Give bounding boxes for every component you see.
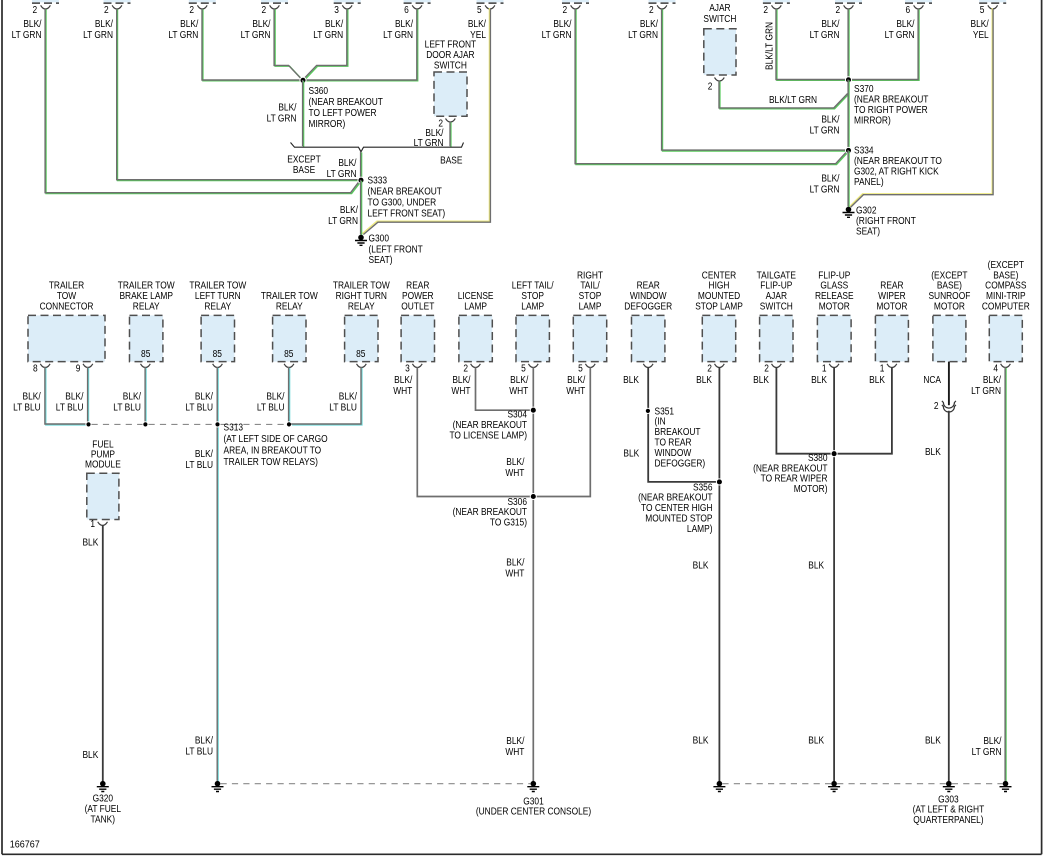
- svg-text:TANK): TANK): [91, 814, 115, 825]
- splice S313 dot d (tow relay + right turn relay): [286, 422, 291, 427]
- svg-text:BLK/: BLK/: [983, 374, 1002, 385]
- svg-text:FLIP-UP: FLIP-UP: [818, 270, 850, 281]
- component REAR POWER OUTLET label: [401, 280, 434, 311]
- svg-text:BLK/: BLK/: [506, 735, 525, 746]
- splice S333 label: [368, 175, 446, 219]
- svg-text:2: 2: [763, 4, 768, 15]
- svg-text:2: 2: [836, 4, 841, 15]
- svg-text:BASE: BASE: [293, 165, 315, 176]
- svg-text:BLK/: BLK/: [195, 735, 214, 746]
- svg-text:DEFOGGER: DEFOGGER: [624, 301, 672, 312]
- svg-text:BLK/: BLK/: [506, 557, 525, 568]
- component REAR WIPER MOTOR box: [875, 315, 908, 361]
- wire label BLK/LT GRN below COMPASS MINI-TRIP COMPUTER: [971, 374, 1001, 396]
- svg-text:MIRROR): MIRROR): [854, 115, 891, 126]
- svg-text:BRAKE LAMP: BRAKE LAMP: [119, 291, 173, 302]
- svg-text:LT BLU: LT BLU: [113, 402, 141, 413]
- svg-text:85: 85: [213, 348, 222, 359]
- svg-text:BLK/: BLK/: [567, 374, 586, 385]
- component FUEL PUMP MODULE label: [85, 439, 121, 470]
- svg-text:2: 2: [104, 4, 109, 15]
- wire BLK/LT BLU from TRAILER TOW BRAKE LAMP RELAY pin85 to splice S313: [144, 367, 147, 423]
- ground symbol for trailer-tow ground chain (G301 left): [212, 781, 224, 792]
- svg-text:(NEAR BREAKOUT: (NEAR BREAKOUT: [453, 507, 528, 518]
- svg-text:BLK/: BLK/: [510, 374, 529, 385]
- svg-text:BLK: BLK: [623, 374, 639, 385]
- svg-text:PANEL): PANEL): [854, 176, 884, 187]
- svg-text:LT BLU: LT BLU: [185, 746, 213, 757]
- wire BLK/LT GRN from top stub pin2 x=575.5 to splice S334: [575, 8, 847, 164]
- svg-text:TAIL/: TAIL/: [580, 280, 600, 291]
- svg-text:(NEAR BREAKOUT: (NEAR BREAKOUT: [453, 419, 528, 430]
- svg-text:FLIP-UP: FLIP-UP: [760, 280, 792, 291]
- svg-text:5: 5: [521, 363, 526, 374]
- svg-text:8: 8: [33, 363, 38, 374]
- svg-text:S306: S306: [507, 496, 527, 507]
- svg-text:3: 3: [334, 4, 339, 15]
- component CENTER HIGH MOUNTED STOP LAMP label: [695, 270, 743, 312]
- svg-text:BLK/: BLK/: [553, 18, 572, 29]
- pin 5 of RIGHT TAIL/ STOP LAMP: [585, 364, 595, 368]
- svg-text:LT GRN: LT GRN: [971, 385, 1001, 396]
- pin 2 of AJAR SWITCH: [715, 78, 725, 82]
- svg-text:BLK: BLK: [693, 560, 709, 571]
- svg-text:(UNDER CENTER CONSOLE): (UNDER CENTER CONSOLE): [476, 806, 591, 817]
- svg-text:S313: S313: [224, 422, 244, 433]
- svg-text:MOTOR: MOTOR: [876, 301, 907, 312]
- wire label BLK/LT BLU on trailer-tow wire x=87.9: [56, 391, 84, 413]
- svg-text:SWITCH: SWITCH: [760, 301, 793, 312]
- wire BLK/LT BLU from TRAILER TOW CONNECTOR pin9 to splice S313: [87, 367, 90, 423]
- wire BLK/WHT from REAR POWER OUTLET pin3 to splice S306: [417, 367, 531, 496]
- wire BLK/LT GRN from top stub pin2 x=117 to splice S333: [117, 8, 360, 180]
- splice S313 dot c (left turn relay): [215, 422, 220, 427]
- svg-text:5: 5: [578, 363, 583, 374]
- wire label BLK/LT GRN for BASE wire: [414, 127, 444, 148]
- svg-text:2: 2: [649, 4, 654, 15]
- component RIGHT TAIL/ STOP LAMP box: [573, 315, 606, 361]
- svg-text:LT BLU: LT BLU: [56, 402, 84, 413]
- pin (unnumbered) of TRAILER TOW RIGHT TURN RELAY: [357, 364, 367, 368]
- ground G301 symbol: [527, 781, 539, 792]
- component TRAILER TOW CONNECTOR box: [28, 315, 105, 361]
- top connector stub x=776.4 (cut-off component): [763, 0, 790, 3]
- top connector stub x=575.5 (cut-off component): [562, 0, 589, 3]
- component TRAILER TOW RIGHT TURN RELAY label: [333, 280, 390, 311]
- svg-text:SEAT): SEAT): [369, 254, 393, 265]
- svg-text:TRAILER TOW: TRAILER TOW: [118, 280, 175, 291]
- svg-text:1: 1: [90, 518, 95, 529]
- component TAILGATE FLIP-UP AJAR SWITCH box: [760, 315, 793, 361]
- svg-text:(NEAR BREAKOUT: (NEAR BREAKOUT: [368, 186, 443, 197]
- component LICENSE LAMP label: [458, 291, 494, 312]
- svg-text:TO G300, UNDER: TO G300, UNDER: [368, 197, 437, 208]
- svg-text:2: 2: [33, 4, 38, 15]
- svg-text:REAR: REAR: [406, 280, 430, 291]
- svg-text:LAMP: LAMP: [521, 301, 544, 312]
- svg-text:BLK/: BLK/: [821, 18, 840, 29]
- wire label BLK/WHT below REAR POWER OUTLET: [393, 374, 413, 396]
- dashed splice links joining G303 grounds: [722, 783, 831, 785]
- wire label BLK/LT BLU on trailer-tow wire x=361.4: [329, 391, 357, 413]
- splice S313 dot a (pins 8/9 junction): [86, 422, 91, 427]
- svg-text:(NEAR BREAKOUT: (NEAR BREAKOUT: [638, 492, 713, 503]
- svg-text:RELAY: RELAY: [276, 301, 303, 312]
- svg-text:BLK/: BLK/: [195, 391, 214, 402]
- ground G300 symbol: [355, 235, 367, 246]
- svg-text:BLK/: BLK/: [95, 18, 114, 29]
- svg-text:LT GRN: LT GRN: [383, 29, 413, 40]
- ground symbol for compass chain (G303 right): [1000, 781, 1012, 792]
- svg-text:AJAR: AJAR: [709, 2, 731, 13]
- top connector stub x=45.5 (cut-off component): [32, 0, 59, 3]
- svg-text:BLK/: BLK/: [506, 456, 525, 467]
- svg-text:LT GRN: LT GRN: [542, 29, 572, 40]
- wire BLK from REAR WIPER MOTOR pin1 to splice S380: [837, 367, 892, 453]
- svg-text:(RIGHT FRONT: (RIGHT FRONT: [856, 215, 916, 226]
- pin 3 of REAR POWER OUTLET: [412, 364, 422, 368]
- svg-text:TO REAR WIPER: TO REAR WIPER: [761, 473, 828, 484]
- splice S334 label: [854, 145, 942, 187]
- svg-text:3: 3: [405, 363, 410, 374]
- svg-text:2: 2: [764, 363, 769, 374]
- svg-text:BLK/: BLK/: [23, 391, 42, 402]
- wire BLK/LT GRN from top stub pin2 x=45.5 to splice S333: [45, 8, 361, 193]
- pin 4 of (EXCEPT BASE) COMPASS MINI-TRIP COMPUTER: [1001, 364, 1011, 368]
- svg-text:BLK/: BLK/: [325, 18, 344, 29]
- svg-text:LT BLU: LT BLU: [329, 402, 357, 413]
- svg-text:WHT: WHT: [505, 746, 524, 757]
- svg-text:TRAILER TOW: TRAILER TOW: [333, 280, 390, 291]
- svg-text:S333: S333: [368, 175, 388, 186]
- svg-text:(EXCEPT: (EXCEPT: [988, 259, 1025, 270]
- svg-text:BLK: BLK: [696, 374, 712, 385]
- component LEFT FRONT DOOR AJAR SWITCH label: [425, 39, 477, 71]
- wire label BLK/WHT above ground G301: [505, 735, 525, 757]
- ground G303 label: [913, 794, 985, 825]
- svg-text:BLK/: BLK/: [395, 18, 414, 29]
- svg-text:4: 4: [993, 363, 998, 374]
- svg-text:BLK/: BLK/: [195, 448, 214, 459]
- svg-text:CENTER: CENTER: [702, 270, 737, 281]
- svg-text:BLK/: BLK/: [338, 157, 357, 168]
- svg-text:RELEASE: RELEASE: [815, 291, 854, 302]
- svg-text:BLK/: BLK/: [971, 18, 990, 29]
- top connector stub x=347.2 (cut-off component): [334, 0, 361, 3]
- label EXCEPT BASE: [287, 154, 321, 175]
- wire BLK/LT BLU from TRAILER TOW CONNECTOR pin8 to splice S313: [45, 367, 87, 425]
- svg-text:MOUNTED: MOUNTED: [698, 291, 741, 302]
- svg-text:S380: S380: [808, 452, 828, 463]
- svg-text:LEFT FRONT SEAT): LEFT FRONT SEAT): [368, 208, 446, 219]
- splice S333 junction dot: [358, 177, 364, 183]
- svg-text:LEFT TURN: LEFT TURN: [195, 291, 241, 302]
- svg-text:SEAT): SEAT): [856, 226, 880, 237]
- svg-text:BREAKOUT: BREAKOUT: [655, 427, 701, 438]
- svg-text:LEFT TAIL/: LEFT TAIL/: [512, 280, 554, 291]
- svg-text:MOTOR: MOTOR: [819, 301, 850, 312]
- pin 9 of TRAILER TOW CONNECTOR: [83, 364, 93, 368]
- svg-text:TOW: TOW: [57, 291, 77, 302]
- pin 2 of TAILGATE FLIP-UP AJAR SWITCH: [772, 364, 782, 368]
- svg-text:WHT: WHT: [505, 568, 524, 579]
- svg-text:BLK: BLK: [808, 735, 824, 746]
- svg-text:BLK/: BLK/: [23, 18, 42, 29]
- ground symbol for sunroof chain (G303): [943, 781, 955, 792]
- splice S380 junction dot: [831, 451, 837, 457]
- wire BLK/LT GRN from brace to splice S333: [361, 152, 362, 181]
- svg-text:S351: S351: [655, 406, 675, 417]
- svg-text:BLK/: BLK/: [339, 391, 358, 402]
- svg-text:BASE: BASE: [440, 155, 462, 166]
- svg-text:BLK: BLK: [693, 735, 709, 746]
- svg-text:BLK/: BLK/: [252, 18, 271, 29]
- svg-text:LT BLU: LT BLU: [185, 402, 213, 413]
- splice S304 label: [449, 409, 527, 441]
- svg-text:5: 5: [980, 4, 985, 15]
- component REAR WINDOW DEFOGGER label: [624, 280, 672, 311]
- wire label BLK/LT BLU on trailer-tow wire x=217.5: [185, 391, 213, 413]
- component REAR WINDOW DEFOGGER box: [632, 315, 665, 361]
- pin (unnumbered) of REAR WINDOW DEFOGGER: [643, 364, 653, 368]
- wire BLK/WHT from RIGHT TAIL/STOP LAMP pin5 to splice S306: [536, 367, 591, 496]
- splice S306 label: [453, 496, 528, 527]
- svg-text:RELAY: RELAY: [348, 301, 375, 312]
- wire label BLK/WHT between S304 and S306: [505, 456, 525, 478]
- ground G301 label: [476, 796, 591, 817]
- svg-text:BLK: BLK: [753, 374, 769, 385]
- wire BLK/WHT from LEFT TAIL/STOP LAMP pin5 through S304/S306 to ground G301: [532, 367, 534, 781]
- svg-text:BLK/: BLK/: [821, 173, 840, 184]
- pin (unnumbered) of TRAILER TOW RELAY: [284, 364, 294, 368]
- splice S370 junction dot: [845, 77, 851, 83]
- wire label BLK/LT GRN on S360-to-brace segment: [267, 102, 297, 124]
- svg-text:COMPUTER: COMPUTER: [982, 301, 1030, 312]
- wire BLK/LT GRN from S333 to ground G300: [361, 180, 362, 236]
- wire BLK/LT GRN from top stub pin6 x=918.5 to splice S370: [850, 8, 919, 80]
- svg-text:BLK: BLK: [925, 446, 941, 457]
- svg-text:REAR: REAR: [880, 280, 904, 291]
- svg-text:BLK: BLK: [925, 735, 941, 746]
- svg-text:LICENSE: LICENSE: [458, 291, 494, 302]
- pin 2 of CENTER HIGH MOUNTED STOP LAMP: [715, 364, 725, 368]
- svg-text:POWER: POWER: [402, 291, 434, 302]
- svg-text:MODULE: MODULE: [85, 459, 121, 470]
- svg-text:BLK/: BLK/: [983, 735, 1002, 746]
- wire BLK from FLIP-UP GLASS RELEASE MOTOR pin1 through S380 to ground G303: [833, 367, 835, 781]
- component LEFT TAIL/ STOP LAMP box: [516, 315, 549, 361]
- svg-text:MINI-TRIP: MINI-TRIP: [986, 291, 1026, 302]
- dashed splice links of S313: [92, 423, 143, 425]
- wire BLK/LT BLU from TRAILER TOW RELAY pin85 to splice S313: [289, 367, 290, 423]
- wire BLK/LT BLU from TRAILER TOW LEFT TURN RELAY pin85 through S313 to ground: [216, 367, 219, 782]
- component TRAILER TOW LEFT TURN RELAY box: [201, 315, 234, 361]
- wire BLK/LT GRN from S370 to S334: [847, 80, 850, 152]
- svg-text:LT GRN: LT GRN: [327, 168, 357, 179]
- wire label BLK/LT GRN at top stub x=202.3: [168, 18, 198, 40]
- component TAILGATE FLIP-UP AJAR SWITCH label: [757, 270, 796, 312]
- component (EXCEPT BASE) COMPASS MINI-TRIP COMPUTER box: [989, 315, 1022, 361]
- component (EXCEPT BASE) SUNROOF MOTOR label: [928, 270, 970, 312]
- svg-text:G301: G301: [523, 796, 543, 807]
- svg-text:WHT: WHT: [509, 385, 528, 396]
- svg-text:2: 2: [934, 400, 939, 411]
- wire label BLK/YEL at top stub x=490: [468, 18, 487, 40]
- svg-text:LT GRN: LT GRN: [313, 29, 343, 40]
- svg-text:G302, AT RIGHT KICK: G302, AT RIGHT KICK: [854, 166, 939, 177]
- wire BLK/YEL from top stub pin5 x=490 to ground G300: [362, 8, 490, 234]
- svg-text:STOP: STOP: [579, 291, 602, 302]
- wire BLK/LT GRN from top stub pin6 x=417.1 to splice S360: [305, 8, 418, 81]
- wire BLK/LT GRN from top stub pin2 x=202.3 to splice S360: [202, 8, 302, 81]
- component FLIP-UP GLASS RELEASE MOTOR label: [815, 270, 854, 312]
- svg-text:(NEAR BREAKOUT: (NEAR BREAKOUT: [854, 94, 929, 105]
- top connector stub x=202.3 (cut-off component): [189, 0, 216, 3]
- svg-text:TRAILER TOW: TRAILER TOW: [189, 280, 246, 291]
- wire label BLK/WHT below LEFT TAIL/STOP LAMP: [509, 374, 529, 396]
- svg-text:MOUNTED STOP: MOUNTED STOP: [645, 513, 712, 524]
- svg-text:BLK/: BLK/: [896, 18, 915, 29]
- svg-text:85: 85: [284, 348, 293, 359]
- svg-text:RELAY: RELAY: [133, 301, 160, 312]
- svg-text:2: 2: [707, 363, 712, 374]
- svg-text:BLK: BLK: [869, 374, 885, 385]
- svg-text:(AT FUEL: (AT FUEL: [85, 803, 121, 814]
- svg-text:COMPASS: COMPASS: [985, 280, 1026, 291]
- top connector stub x=490 (cut-off component): [477, 0, 504, 3]
- splice S313 label: [224, 422, 328, 467]
- svg-text:AJAR: AJAR: [766, 291, 788, 302]
- svg-text:TRAILER TOW: TRAILER TOW: [261, 291, 318, 302]
- wire BLK/LT GRN from top stub pin2 x=274.5 to splice S360: [274, 8, 303, 80]
- svg-text:LT GRN: LT GRN: [168, 29, 198, 40]
- top connector stub x=417.1 (cut-off component): [404, 0, 431, 3]
- svg-text:MOTOR: MOTOR: [934, 301, 965, 312]
- wire label BLK/YEL at stub x=992.7: [971, 18, 990, 40]
- svg-text:2: 2: [262, 4, 267, 15]
- splice S360 junction dot: [300, 77, 306, 83]
- svg-text:YEL: YEL: [973, 29, 989, 40]
- splice S334 junction dot: [845, 147, 851, 153]
- svg-text:G320: G320: [93, 793, 113, 804]
- wire label BLK/LT GRN brace-to-S333: [327, 157, 357, 179]
- svg-text:BLK: BLK: [811, 374, 827, 385]
- component AJAR SWITCH box: [704, 29, 736, 75]
- pin 8 of TRAILER TOW CONNECTOR: [40, 364, 50, 368]
- svg-text:WHT: WHT: [393, 385, 412, 396]
- svg-text:S360: S360: [309, 85, 329, 96]
- svg-text:(NEAR BREAKOUT: (NEAR BREAKOUT: [309, 96, 384, 107]
- svg-text:TAILGATE: TAILGATE: [757, 270, 796, 281]
- svg-text:BLK/: BLK/: [821, 114, 840, 125]
- svg-text:RIGHT: RIGHT: [577, 270, 603, 281]
- wire label BLK/LT GRN at top stub x=347.2: [313, 18, 343, 40]
- svg-text:BLK/: BLK/: [394, 374, 413, 385]
- ground G320 symbol: [97, 781, 109, 792]
- svg-text:OUTLET: OUTLET: [401, 301, 434, 312]
- wire label BLK/LT BLU on S313-to-ground wire: [185, 448, 213, 470]
- svg-text:BLK: BLK: [82, 537, 98, 548]
- top connector stub x=274.5 (cut-off component): [261, 0, 288, 3]
- wire BLK/WHT from LICENSE LAMP pin2 to splice S304: [476, 367, 532, 410]
- svg-text:2: 2: [463, 363, 468, 374]
- svg-text:LEFT FRONT: LEFT FRONT: [425, 39, 477, 50]
- svg-text:WINDOW: WINDOW: [630, 291, 667, 302]
- component TRAILER TOW BRAKE LAMP RELAY box: [130, 315, 163, 361]
- svg-text:WHT: WHT: [505, 467, 524, 478]
- svg-text:(AT LEFT & RIGHT: (AT LEFT & RIGHT: [913, 804, 985, 815]
- svg-text:LT GRN: LT GRN: [810, 184, 840, 195]
- svg-text:LT GRN: LT GRN: [328, 215, 358, 226]
- svg-text:TRAILER: TRAILER: [49, 280, 85, 291]
- svg-text:2: 2: [189, 4, 194, 15]
- svg-text:BLK/: BLK/: [180, 18, 199, 29]
- component (EXCEPT BASE) SUNROOF MOTOR box: [933, 315, 966, 361]
- pin 2 of LICENSE LAMP: [471, 364, 481, 368]
- svg-text:TO LEFT POWER: TO LEFT POWER: [309, 107, 377, 118]
- svg-text:BLK/LT GRN: BLK/LT GRN: [769, 94, 817, 105]
- svg-text:SWITCH: SWITCH: [703, 13, 736, 24]
- wire label BLK/LT GRN at top stub x=45.5: [12, 18, 42, 40]
- wire label BLK/LT BLU near bottom ground: [185, 735, 213, 757]
- wire label BLK/WHT below S306 (mid): [505, 557, 525, 579]
- svg-text:TO RIGHT POWER: TO RIGHT POWER: [854, 104, 928, 115]
- top connector stub x=848.5 (cut-off component): [835, 0, 862, 3]
- splice S304 junction dot: [530, 407, 536, 413]
- svg-text:NCA: NCA: [923, 374, 942, 385]
- svg-text:LT BLU: LT BLU: [257, 402, 285, 413]
- svg-text:BLK/: BLK/: [468, 18, 487, 29]
- svg-text:1: 1: [880, 363, 885, 374]
- svg-text:BLK/: BLK/: [640, 18, 659, 29]
- svg-text:BLK/: BLK/: [266, 391, 285, 402]
- svg-text:LT GRN: LT GRN: [885, 29, 915, 40]
- wire label BLK/LT GRN at stub x=575.5: [542, 18, 572, 40]
- svg-text:5: 5: [477, 4, 482, 15]
- component AJAR SWITCH label: [703, 2, 736, 23]
- svg-text:2: 2: [708, 81, 713, 92]
- svg-text:(NEAR BREAKOUT TO: (NEAR BREAKOUT TO: [854, 155, 942, 166]
- ground symbol for glass release chain (G303): [828, 781, 840, 792]
- wire label BLK/LT GRN S334-to-G302: [810, 173, 840, 195]
- wire BLK/LT GRN from top stub pin3 x=347.2 to splice S360: [303, 8, 347, 80]
- wire label BLK/LT GRN S370-to-S334: [810, 114, 840, 136]
- svg-text:(NEAR BREAKOUT: (NEAR BREAKOUT: [753, 463, 828, 474]
- wire label BLK/LT GRN at stub x=918.5: [885, 18, 915, 40]
- wire label BLK/LT BLU on trailer-tow wire x=45.2: [13, 391, 41, 413]
- component TRAILER TOW LEFT TURN RELAY label: [189, 280, 246, 311]
- splice S351 junction dot: [645, 408, 650, 413]
- svg-text:LT GRN: LT GRN: [628, 29, 658, 40]
- svg-text:S334: S334: [854, 145, 874, 156]
- wire BLK/LT GRN from AJAR SWITCH pin2 to splice S370: [719, 81, 849, 109]
- svg-text:166767: 166767: [10, 839, 40, 851]
- svg-text:CONNECTOR: CONNECTOR: [40, 301, 94, 312]
- top connector stub x=918.5 (cut-off component): [905, 0, 932, 3]
- wire label BLK/LT GRN at top stub x=117: [83, 18, 113, 40]
- wire NCA from SUNROOF MOTOR to in-line connector: [948, 362, 950, 406]
- wire BLK from TAILGATE FLIP-UP AJAR SWITCH pin2 to splice S380: [776, 367, 831, 453]
- svg-text:TO CENTER HIGH: TO CENTER HIGH: [641, 503, 712, 514]
- pin 2 of LEFT FRONT DOOR AJAR SWITCH: [446, 119, 456, 123]
- wire BLK from FUEL PUMP MODULE pin1 to ground G320: [102, 525, 104, 781]
- svg-text:WIPER: WIPER: [878, 291, 906, 302]
- svg-text:DEFOGGER): DEFOGGER): [655, 458, 706, 469]
- ground symbol for CHMSL chain (G303 left): [713, 781, 725, 792]
- component TRAILER TOW CONNECTOR label: [40, 280, 94, 311]
- component RIGHT TAIL/ STOP LAMP label: [577, 270, 603, 312]
- svg-text:MOTOR): MOTOR): [794, 484, 828, 495]
